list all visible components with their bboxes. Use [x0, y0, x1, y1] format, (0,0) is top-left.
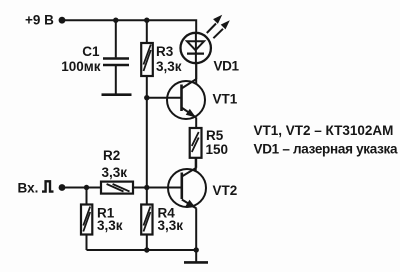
- svg-text:R2: R2: [103, 148, 120, 163]
- svg-text:100мк: 100мк: [61, 59, 101, 74]
- svg-text:R3: R3: [156, 44, 174, 59]
- svg-text:150: 150: [206, 142, 229, 157]
- svg-text:VT1, VT2 – КТ3102АМ: VT1, VT2 – КТ3102АМ: [254, 123, 394, 138]
- svg-text:VD1: VD1: [214, 59, 240, 74]
- svg-text:VD1 – лазерная указка: VD1 – лазерная указка: [254, 141, 399, 156]
- svg-text:R5: R5: [206, 128, 224, 143]
- svg-text:Вх.: Вх.: [18, 181, 39, 196]
- svg-text:3,3к: 3,3к: [102, 165, 128, 180]
- svg-text:+9 В: +9 В: [25, 13, 54, 28]
- svg-text:3,3к: 3,3к: [97, 218, 123, 233]
- svg-text:3,3к: 3,3к: [158, 218, 184, 233]
- svg-text:C1: C1: [82, 44, 100, 59]
- svg-text:3,3к: 3,3к: [156, 59, 182, 74]
- svg-text:VT2: VT2: [213, 183, 238, 198]
- svg-text:VT1: VT1: [213, 92, 238, 107]
